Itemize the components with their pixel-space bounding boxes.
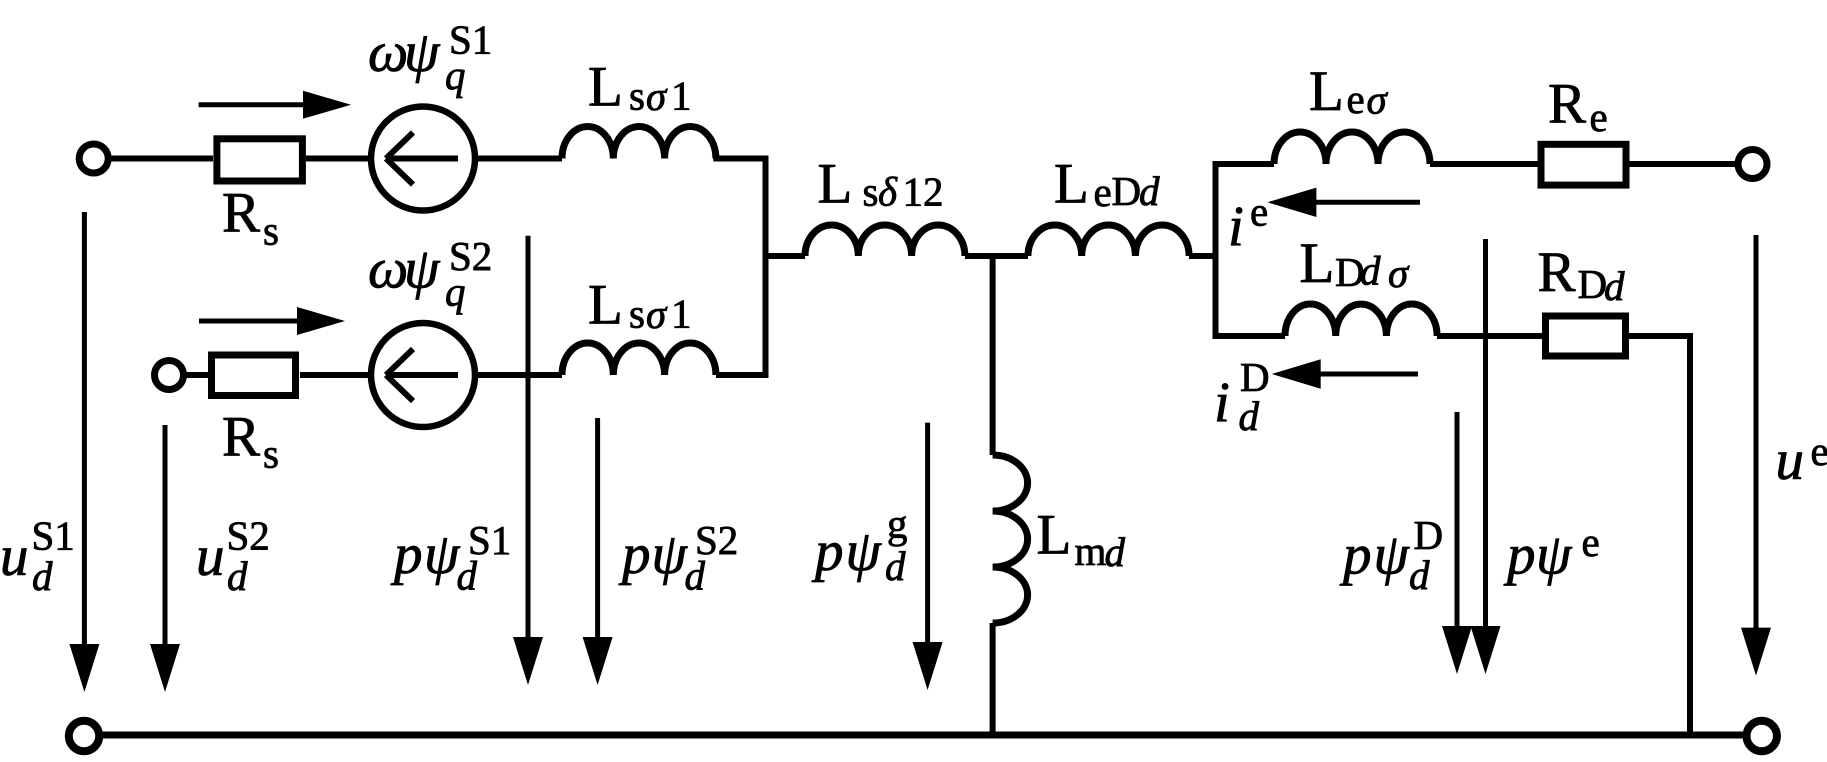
svg-text:L: L: [588, 56, 623, 119]
svg-text:e: e: [1347, 76, 1365, 122]
svg-text:L: L: [588, 274, 623, 337]
svg-text:12: 12: [903, 168, 944, 214]
svg-text:s: s: [863, 169, 879, 215]
svg-text:L: L: [1300, 232, 1335, 295]
svg-text:e: e: [1590, 94, 1608, 140]
svg-text:p: p: [811, 520, 844, 583]
svg-text:1: 1: [671, 72, 692, 118]
svg-text:R: R: [222, 182, 260, 245]
svg-text:R: R: [1548, 73, 1586, 136]
svg-text:D: D: [1112, 168, 1142, 214]
svg-text:i: i: [1214, 372, 1230, 435]
svg-text:S2: S2: [227, 512, 270, 558]
svg-text:L: L: [818, 153, 853, 216]
svg-text:L: L: [1054, 153, 1089, 216]
svg-text:R: R: [222, 406, 260, 469]
svg-text:u: u: [1776, 429, 1805, 492]
svg-text:ψ: ψ: [404, 21, 441, 84]
svg-text:D: D: [1414, 512, 1444, 558]
svg-text:S1: S1: [32, 512, 75, 558]
svg-text:s: s: [263, 431, 279, 477]
svg-text:1: 1: [671, 290, 692, 336]
svg-text:σ: σ: [646, 291, 668, 337]
svg-text:q: q: [445, 52, 466, 98]
svg-text:ω: ω: [368, 21, 408, 84]
svg-text:d: d: [1139, 168, 1160, 214]
svg-text:u: u: [196, 525, 225, 588]
svg-text:e: e: [1094, 169, 1112, 215]
svg-text:e: e: [1811, 428, 1827, 474]
svg-text:L: L: [1037, 504, 1072, 567]
svg-text:R: R: [1538, 241, 1576, 304]
svg-text:d: d: [1604, 263, 1625, 309]
svg-text:s: s: [263, 208, 279, 254]
svg-text:s: s: [629, 72, 645, 118]
svg-text:σ: σ: [1367, 77, 1389, 123]
svg-text:p: p: [1503, 524, 1536, 587]
svg-text:d: d: [1360, 248, 1381, 294]
svg-text:d: d: [1239, 393, 1260, 439]
svg-text:p: p: [390, 523, 423, 586]
svg-text:ψ: ψ: [424, 523, 461, 586]
svg-text:p: p: [1339, 524, 1372, 587]
svg-text:m: m: [1075, 528, 1107, 574]
svg-text:d: d: [1409, 552, 1430, 598]
svg-text:p: p: [618, 523, 651, 586]
svg-text:σ: σ: [646, 73, 668, 119]
svg-text:e: e: [1582, 519, 1600, 565]
svg-text:δ: δ: [878, 169, 898, 215]
svg-text:e: e: [1250, 188, 1268, 234]
svg-text:u: u: [0, 525, 29, 588]
svg-text:D: D: [1578, 261, 1608, 307]
svg-text:q: q: [445, 269, 466, 315]
svg-text:s: s: [629, 290, 645, 336]
svg-text:ψ: ψ: [652, 523, 689, 586]
svg-text:d: d: [457, 553, 478, 599]
svg-text:ψ: ψ: [1374, 524, 1411, 587]
svg-text:ψ: ψ: [1536, 524, 1573, 587]
svg-text:d: d: [685, 553, 706, 599]
svg-text:L: L: [1309, 60, 1344, 123]
svg-text:d: d: [1105, 529, 1126, 575]
svg-text:σ: σ: [1388, 250, 1410, 296]
svg-text:ω: ω: [368, 238, 408, 301]
svg-text:g: g: [887, 501, 908, 547]
svg-text:d: d: [32, 553, 53, 599]
svg-text:d: d: [885, 543, 906, 589]
svg-text:ψ: ψ: [846, 520, 883, 583]
svg-text:i: i: [1228, 196, 1244, 259]
svg-text:d: d: [227, 553, 248, 599]
svg-text:ψ: ψ: [404, 238, 441, 301]
